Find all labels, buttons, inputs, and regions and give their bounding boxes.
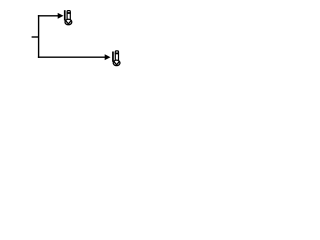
terminal bar of lamp L2 [112,52,114,62]
terminal bar of lamp L1 [64,10,66,20]
lamp L1 filament [66,21,71,24]
lamp L2 screw base [115,51,118,61]
lamp L1 screw base [67,11,70,20]
arrow: flow arrow into lamp L2 [105,54,111,60]
lamp L2 filament [114,62,119,65]
arrow: flow arrow into lamp L1 [58,13,64,19]
wire: input stub at left [32,36,39,38]
lamp L2 glass bulb [113,60,120,66]
lamp L2 base thread band [115,53,119,55]
wire: vertical bus [38,15,40,58]
wire: bottom branch [38,56,106,58]
wire: top branch [38,15,59,17]
lamp L1 base thread band [67,12,71,14]
lamp L1 glass bulb [65,19,72,25]
